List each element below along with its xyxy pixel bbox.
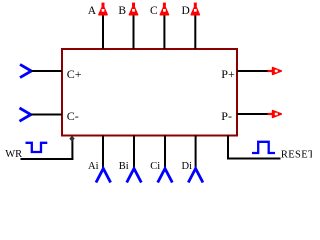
wire P+ xyxy=(237,70,269,72)
svg-text:B: B xyxy=(118,5,126,17)
block U1 xyxy=(62,49,237,136)
wire WR horizontal xyxy=(21,158,74,160)
arrow input C+ xyxy=(20,64,31,77)
wire pin B xyxy=(133,15,135,50)
wire WR vertical xyxy=(71,138,73,160)
wire pin Bi xyxy=(133,136,135,169)
wire RESET horizontal xyxy=(227,158,281,160)
svg-text:RESET: RESET xyxy=(281,149,312,160)
wire pin Ai xyxy=(102,136,104,169)
wire pin Di xyxy=(195,136,197,169)
svg-text:Bi: Bi xyxy=(119,161,129,172)
pulse symbol WR (negative pulse) xyxy=(26,143,48,152)
wire P- xyxy=(237,113,269,115)
svg-text:Ci: Ci xyxy=(150,161,160,172)
pulse symbol RESET (positive pulse) xyxy=(252,142,275,153)
svg-text:D: D xyxy=(182,5,190,17)
wire pin A xyxy=(102,15,104,50)
arrow pin D xyxy=(191,3,199,15)
arrow input Di xyxy=(188,169,203,183)
wire C+ xyxy=(31,70,62,72)
svg-text:WR: WR xyxy=(5,149,22,160)
svg-text:P-: P- xyxy=(221,109,232,123)
svg-text:C: C xyxy=(150,5,158,17)
arrow pin B xyxy=(130,3,138,15)
arrow input Ai xyxy=(96,169,111,183)
arrow pin C xyxy=(160,3,168,15)
wire C- xyxy=(31,114,62,116)
svg-text:A: A xyxy=(88,5,97,17)
arrow input Ci xyxy=(158,169,173,183)
junction WR at block xyxy=(69,136,74,142)
wire RESET vertical xyxy=(227,136,229,159)
svg-text:C-: C- xyxy=(67,109,79,123)
arrow input C- xyxy=(20,108,31,121)
arrow pin A xyxy=(99,3,107,15)
arrow output P- xyxy=(268,111,282,118)
svg-text:C+: C+ xyxy=(67,67,82,81)
wire pin Ci xyxy=(164,136,166,169)
arrow input Bi xyxy=(127,169,142,183)
wire pin C xyxy=(163,15,165,50)
arrow output P+ xyxy=(268,68,282,75)
wire pin D xyxy=(194,15,196,50)
svg-text:Di: Di xyxy=(182,161,193,172)
svg-text:P+: P+ xyxy=(221,67,235,81)
svg-text:Ai: Ai xyxy=(88,161,99,172)
